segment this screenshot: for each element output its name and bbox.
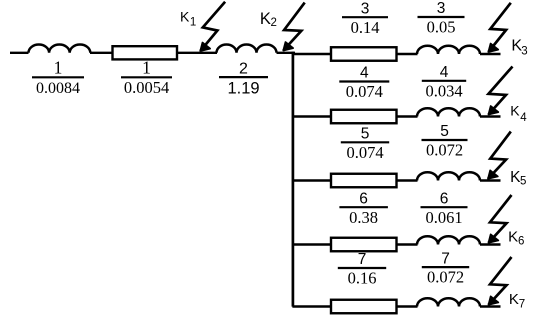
svg-text:0.0084: 0.0084 — [36, 80, 80, 97]
svg-text:3: 3 — [437, 0, 446, 17]
svg-text:1: 1 — [142, 58, 151, 78]
svg-text:6: 6 — [518, 236, 524, 248]
svg-text:0.034: 0.034 — [425, 81, 462, 100]
svg-text:0.074: 0.074 — [346, 143, 383, 162]
svg-text:0.072: 0.072 — [426, 141, 463, 160]
svg-text:0.0054: 0.0054 — [124, 78, 169, 97]
svg-text:K: K — [180, 8, 190, 24]
svg-text:1: 1 — [54, 58, 63, 78]
svg-text:0.072: 0.072 — [427, 268, 464, 287]
svg-text:6: 6 — [359, 190, 368, 207]
svg-text:7: 7 — [519, 298, 525, 310]
svg-text:7: 7 — [441, 250, 450, 267]
svg-text:0.05: 0.05 — [427, 18, 456, 37]
svg-text:2: 2 — [271, 17, 277, 29]
svg-text:2: 2 — [239, 60, 248, 77]
svg-text:6: 6 — [440, 190, 449, 207]
svg-text:0.16: 0.16 — [348, 269, 377, 288]
svg-text:3: 3 — [361, 0, 370, 17]
svg-text:K: K — [508, 228, 518, 245]
svg-text:0.14: 0.14 — [351, 18, 380, 37]
svg-text:4: 4 — [360, 65, 369, 82]
svg-text:0.074: 0.074 — [346, 82, 383, 101]
svg-text:K: K — [509, 291, 519, 308]
svg-text:1.19: 1.19 — [227, 80, 259, 98]
svg-text:4: 4 — [520, 112, 527, 124]
svg-text:5: 5 — [520, 176, 526, 188]
svg-text:1: 1 — [190, 17, 196, 29]
svg-text:0.061: 0.061 — [425, 208, 462, 227]
svg-text:5: 5 — [440, 123, 449, 140]
svg-text:0.38: 0.38 — [349, 208, 378, 227]
svg-text:3: 3 — [521, 45, 527, 57]
svg-text:5: 5 — [361, 126, 370, 143]
svg-text:4: 4 — [440, 64, 449, 81]
svg-text:K: K — [260, 10, 271, 28]
svg-text:7: 7 — [358, 251, 367, 268]
svg-text:K: K — [510, 102, 520, 118]
